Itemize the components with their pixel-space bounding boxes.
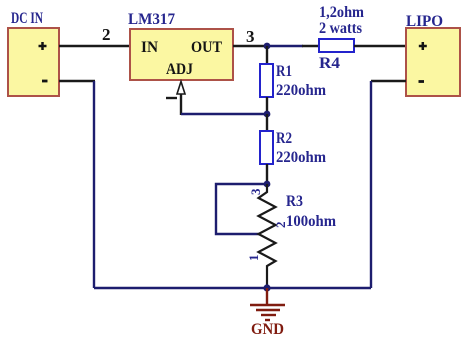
- resistor R1 body: [260, 64, 273, 97]
- potentiometer R3 zigzag body: [259, 184, 276, 288]
- svg-text:IN: IN: [141, 39, 158, 56]
- svg-text:3: 3: [248, 188, 263, 195]
- svg-text:LIPO: LIPO: [406, 13, 443, 30]
- svg-text:1: 1: [246, 255, 261, 262]
- R1 bottom pin lead: [266, 97, 268, 114]
- wire LIPO - pin lead: [371, 80, 406, 82]
- junction R2/R3 top: [264, 181, 271, 188]
- wire R4 to LIPO +: [354, 45, 406, 47]
- svg-text:220ohm: 220ohm: [276, 82, 327, 99]
- svg-text:3: 3: [246, 27, 255, 46]
- LIPO pin - label: [419, 80, 425, 83]
- svg-text:R2: R2: [276, 130, 292, 147]
- svg-text:1,2ohm: 1,2ohm: [319, 4, 365, 21]
- wire LM317 OUT to node 3: [233, 45, 267, 47]
- svg-text:OUT: OUT: [191, 39, 222, 56]
- wire ground rail: [94, 287, 371, 289]
- svg-text:2 watts: 2 watts: [319, 20, 362, 37]
- LM317 ADJ pin 1 number (rotated dash): [166, 97, 177, 99]
- ground symbol: [250, 288, 285, 320]
- R2 bottom pin lead: [266, 164, 268, 184]
- LM317 ADJ arrow: [177, 82, 185, 95]
- connector J1 DC IN body: [8, 10, 59, 96]
- connector J2 LIPO body: [406, 13, 460, 96]
- svg-text:220ohm: 220ohm: [276, 149, 327, 166]
- R1 top pin lead: [266, 46, 268, 64]
- svg-text:LM317: LM317: [128, 11, 175, 28]
- junction node 3: [264, 43, 271, 50]
- DC IN pin - label: [42, 80, 48, 83]
- wire R3 wiper loop (pin3 to pin2): [216, 184, 266, 234]
- svg-text:R4: R4: [319, 55, 340, 72]
- junction R1/R2/ADJ: [264, 111, 271, 118]
- resistor R2 body: [260, 131, 273, 164]
- regulator U1 LM317 body: [128, 11, 233, 80]
- junction ground rail / R3 / GND: [263, 284, 270, 291]
- wire ADJ net horizontal to R1/R2 junction: [181, 113, 267, 115]
- svg-text:R3: R3: [286, 193, 303, 210]
- wire left vertical to ground rail: [93, 81, 95, 288]
- DC IN pin + label: [39, 42, 47, 50]
- wire DC IN + to LM317 IN (net 2): [59, 45, 130, 47]
- R4 value label 1,2ohm 2 watts: [319, 4, 365, 37]
- LIPO pin + label: [419, 42, 427, 50]
- svg-text:R1: R1: [276, 63, 292, 80]
- wire ADJ pin down: [180, 94, 182, 115]
- svg-text:100ohm: 100ohm: [286, 213, 337, 230]
- wire node 3 to R4: [267, 45, 303, 47]
- svg-text:2: 2: [102, 25, 111, 44]
- wire right vertical to ground rail: [370, 81, 372, 288]
- svg-text:ADJ: ADJ: [166, 61, 193, 78]
- R2 top pin lead: [266, 114, 268, 131]
- svg-text:GND: GND: [251, 321, 284, 338]
- svg-text:DC IN: DC IN: [11, 10, 43, 27]
- resistor R4 body: [319, 39, 354, 52]
- R4 left pin lead: [302, 45, 319, 47]
- wire DC IN - pin lead: [59, 80, 95, 82]
